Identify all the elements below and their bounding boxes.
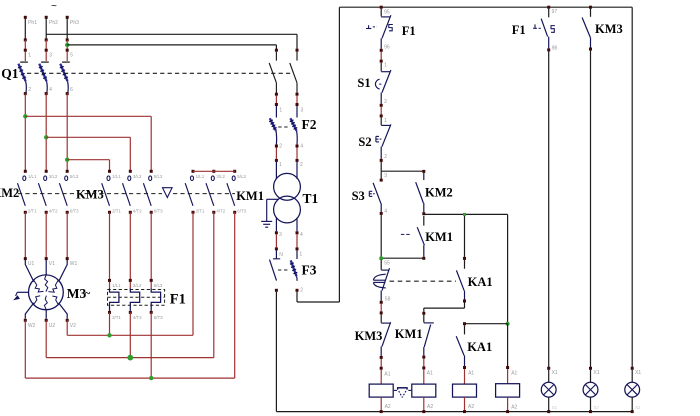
svg-text:S1: S1 <box>357 76 370 90</box>
svg-text:~: ~ <box>85 289 91 300</box>
lamp H2 <box>589 367 592 370</box>
svg-text:3/L2: 3/L2 <box>49 174 58 179</box>
svg-text:KM1: KM1 <box>236 189 264 203</box>
wire node 55 <box>381 257 424 259</box>
KM3 pole 1/L1 <box>108 170 111 173</box>
motor leads <box>25 260 67 282</box>
wires KM1 outputs down <box>192 212 194 335</box>
svg-text:2: 2 <box>28 87 31 93</box>
branch KM1 coil <box>423 308 425 312</box>
svg-text:2: 2 <box>300 162 303 168</box>
svg-text:A2: A2 <box>511 405 517 411</box>
junction F1 2/T1 <box>107 333 111 337</box>
svg-text:A2: A2 <box>385 404 391 410</box>
F1 input 3/L2 <box>129 279 132 282</box>
svg-text:A1: A1 <box>427 371 433 377</box>
wires KM3 outputs to thermal relay F1 <box>109 212 111 280</box>
svg-text:X1: X1 <box>552 370 558 376</box>
motor shaft arrow <box>17 291 28 293</box>
svg-text:6/T3: 6/T3 <box>237 209 246 214</box>
terminal Ph1 <box>24 16 27 19</box>
terminal Ph3 <box>66 16 69 19</box>
svg-text:1: 1 <box>299 252 302 258</box>
svg-text:5/L3: 5/L3 <box>237 174 246 179</box>
stop button S2 <box>380 117 382 125</box>
KM1 pole 1/L1 <box>192 170 195 173</box>
svg-text:KM3: KM3 <box>595 22 623 36</box>
motor terminal U1 <box>24 257 27 260</box>
svg-text:2: 2 <box>279 144 282 150</box>
svg-text:4/T2: 4/T2 <box>216 209 225 214</box>
svg-text:95: 95 <box>384 10 390 16</box>
svg-text:KA1: KA1 <box>467 340 492 354</box>
contact KM3 (lamp) <box>589 6 592 9</box>
wire L2 to KM3 pole 3 <box>46 136 130 138</box>
ground symbol <box>261 220 272 222</box>
svg-text:4/T2: 4/T2 <box>49 209 58 214</box>
node horizontal to KM3-coil branch <box>424 213 508 215</box>
svg-text:F3: F3 <box>302 263 317 278</box>
svg-text:KM1: KM1 <box>425 230 453 244</box>
svg-text:98: 98 <box>552 45 558 51</box>
timer link dashed to KA1 contact <box>390 280 457 282</box>
junction F1 6/T3 <box>149 376 153 380</box>
F3 link dashes <box>278 269 289 271</box>
motor terminal W1 <box>66 257 69 260</box>
motor body circle <box>29 275 64 310</box>
wire L1 to KM3 pole 5 <box>25 115 151 117</box>
contact KA1 (upper, after timer) <box>464 216 466 257</box>
KM2 pole 1/L1 <box>24 170 27 173</box>
control bottom rail <box>276 411 632 413</box>
svg-text:V1: V1 <box>49 261 55 267</box>
wires F1 outputs down to winding ends <box>109 312 111 335</box>
F1 mid dashed line <box>108 296 165 298</box>
delta symbol <box>163 188 173 198</box>
svg-text:A2: A2 <box>427 404 433 410</box>
svg-text:A1: A1 <box>384 371 390 377</box>
svg-text:3: 3 <box>384 173 387 179</box>
loop wire U2 - KM1 3/L2 <box>46 357 214 359</box>
transformer T1 <box>275 148 277 159</box>
svg-text:2: 2 <box>384 99 387 105</box>
svg-text:1: 1 <box>384 62 387 68</box>
wire L3 to KM3 pole 1 <box>67 159 109 161</box>
junction F1 4/T2 <box>127 355 133 361</box>
wire Ph3 to Q1 <box>66 40 68 50</box>
wire Ph1 to Q1 <box>24 40 26 50</box>
F3 neutral pole <box>275 250 277 258</box>
svg-text:N: N <box>279 252 283 258</box>
wire Ph3 to Q1 aux pole (second feeder) <box>67 44 276 46</box>
F1 dashed enclosure <box>108 290 165 306</box>
svg-text:1/L1: 1/L1 <box>112 283 121 288</box>
F1 heater element 2/T1 <box>109 282 111 289</box>
svg-text:97: 97 <box>552 9 558 15</box>
svg-text:Q1: Q1 <box>1 66 19 81</box>
svg-text:U1: U1 <box>28 261 35 267</box>
node on Ph3 (junction) <box>65 43 69 47</box>
F2 pole input 1 <box>275 96 277 104</box>
Q1 aux pole <box>275 49 278 52</box>
svg-text:KA1: KA1 <box>468 275 493 289</box>
coil KM1 <box>412 384 436 397</box>
svg-text:4: 4 <box>49 87 52 93</box>
Q1 mechanical link (dashed) <box>27 72 293 74</box>
svg-text:3: 3 <box>279 232 282 238</box>
KM2 pole 3/L2 <box>45 170 48 173</box>
wires Q1 outputs down to KM2 <box>24 94 26 172</box>
svg-text:2/T1: 2/T1 <box>112 209 121 214</box>
F1 input 5/L3 <box>150 279 153 282</box>
svg-text:Ph3: Ph3 <box>70 20 79 26</box>
svg-text:F1: F1 <box>170 291 186 307</box>
svg-text:KM1: KM1 <box>395 327 423 341</box>
svg-text:KM2: KM2 <box>425 186 453 200</box>
junction L1 <box>23 114 27 118</box>
svg-text:A2: A2 <box>468 404 474 410</box>
coil KM3 <box>496 384 520 397</box>
branch KM3 coil <box>507 214 509 323</box>
T1 secondary circle <box>274 196 301 223</box>
svg-text:F2: F2 <box>302 117 317 132</box>
lamp H3 <box>631 367 634 370</box>
svg-text:X2: X2 <box>635 405 641 410</box>
svg-text:V2: V2 <box>70 323 76 329</box>
KM1 pole 3/L2 <box>212 170 215 173</box>
svg-text:2/T1: 2/T1 <box>196 209 205 214</box>
svg-text:6/T3: 6/T3 <box>70 209 79 214</box>
wire F3 neutral to control bottom rail <box>275 292 277 412</box>
coil KM2 (delta contactor coil) <box>369 384 393 397</box>
timed contact KA1 (star-delta timer) <box>380 260 382 270</box>
F2 link dashes <box>278 126 289 128</box>
svg-text:55: 55 <box>384 260 390 266</box>
svg-text:U2: U2 <box>49 323 56 329</box>
thermal contact F1 95-96 <box>380 6 383 9</box>
svg-text:3/L2: 3/L2 <box>133 174 142 179</box>
contact KM1 (series) <box>423 216 425 226</box>
terminal Ph2 <box>45 16 48 19</box>
svg-text:4: 4 <box>300 144 303 150</box>
loop wire V2 - KM1 1/L1 <box>67 334 193 336</box>
svg-text:4/T2: 4/T2 <box>133 315 142 320</box>
KM3 pole 3/L2 <box>129 170 132 173</box>
svg-text:W2: W2 <box>28 323 36 329</box>
svg-text:4: 4 <box>384 208 387 214</box>
wire to KA1 coil branch <box>465 323 508 325</box>
svg-text:3/L2: 3/L2 <box>133 283 142 288</box>
svg-text:T1: T1 <box>303 191 319 206</box>
T1 primary pins <box>275 162 277 179</box>
Q1 aux pole <box>296 49 299 52</box>
svg-text:3: 3 <box>301 107 304 113</box>
wire Ph2 to Q1 aux pole (top feeder) <box>46 33 297 35</box>
svg-text:6/T3: 6/T3 <box>154 315 163 320</box>
svg-text:~: ~ <box>51 1 57 12</box>
motor terminal W2 <box>24 319 27 322</box>
KM1 pole 5/L3 <box>233 170 236 173</box>
contact KA1 (lower) <box>464 325 466 334</box>
F3 phase pole (protected) <box>296 250 298 259</box>
svg-text:5/L3: 5/L3 <box>154 283 163 288</box>
wire to lamp H1 <box>548 51 550 367</box>
contact KM2 (hold-in) <box>423 173 425 180</box>
svg-text:Ph1: Ph1 <box>28 20 37 26</box>
svg-text:96: 96 <box>384 45 390 51</box>
start button S3 <box>380 171 382 178</box>
KM2 pole 5/L3 <box>66 170 69 173</box>
KM3 pole 5/L3 <box>150 170 153 173</box>
control top rail <box>339 6 632 8</box>
svg-text:F1: F1 <box>402 24 416 38</box>
stop button S1 <box>380 63 382 72</box>
wire to lamp H2 <box>590 51 592 368</box>
svg-text:4: 4 <box>300 232 303 238</box>
svg-text:KM3: KM3 <box>355 329 383 343</box>
svg-text:1/L1: 1/L1 <box>196 174 205 179</box>
wires T1 secondary to F3 <box>275 234 277 247</box>
T1 secondary pins <box>275 218 277 231</box>
svg-text:1: 1 <box>384 118 387 124</box>
svg-text:58: 58 <box>385 297 391 303</box>
svg-text:X1: X1 <box>635 370 641 376</box>
coil KA1 (timer relay) <box>453 384 477 397</box>
svg-text:3: 3 <box>49 53 52 59</box>
svg-text:2: 2 <box>300 288 303 294</box>
mechanical link dashes across contactors <box>18 193 162 195</box>
svg-text:W1: W1 <box>70 261 78 267</box>
F2 pole input 3 <box>296 96 298 104</box>
motor terminal V1 <box>45 257 48 260</box>
wire KA1 output to KM1 coil branch <box>424 307 465 309</box>
svg-text:1: 1 <box>279 107 282 113</box>
T1 earth connection <box>267 198 279 200</box>
wire supply right edge to lamp H3 <box>631 7 633 367</box>
F1 heater element 4/T2 <box>129 282 131 289</box>
svg-text:5: 5 <box>70 53 73 59</box>
svg-text:2/T1: 2/T1 <box>28 209 37 214</box>
junction L3 <box>65 158 69 162</box>
svg-text:4/T2: 4/T2 <box>133 209 142 214</box>
svg-text:A1: A1 <box>468 371 474 377</box>
wires KM2 outputs to motor <box>24 212 26 258</box>
svg-text:6/T3: 6/T3 <box>154 209 163 214</box>
motor terminal V2 <box>66 319 69 322</box>
svg-text:2/T1: 2/T1 <box>112 315 121 320</box>
svg-text:S2: S2 <box>358 135 371 149</box>
F1 input 1/L1 <box>108 279 111 282</box>
star bridge across KM1 inputs <box>193 170 235 172</box>
svg-text:5/L3: 5/L3 <box>154 174 163 179</box>
wire Ph2 to Q1 <box>45 40 47 50</box>
interlock contact KM3 <box>380 314 382 322</box>
wire to node 3 <box>380 162 382 171</box>
svg-text:2: 2 <box>384 154 387 160</box>
svg-text:1: 1 <box>279 162 282 168</box>
junction L2 <box>44 135 48 139</box>
svg-text:KM2: KM2 <box>0 186 19 200</box>
lamp H1 <box>547 367 550 370</box>
F1 heater element 6/T3 <box>150 282 152 289</box>
motor terminal U2 <box>45 319 48 322</box>
signal contact F1 97-98 <box>547 6 550 9</box>
svg-text:F1: F1 <box>512 23 526 37</box>
svg-text:X2: X2 <box>552 405 558 410</box>
wire F3 phase output to control supply rail <box>296 292 298 302</box>
svg-text:3/L2: 3/L2 <box>216 174 225 179</box>
node 3 horizontal to KM2 contact <box>381 170 424 172</box>
svg-text:1/L1: 1/L1 <box>28 174 37 179</box>
delta marker next to coil <box>397 387 408 389</box>
svg-text:Ph2: Ph2 <box>49 20 58 26</box>
wires motor bottom terminals down <box>66 320 68 335</box>
F2 blades <box>270 118 276 131</box>
loop wire W2 - KM1 5/L3 <box>25 377 234 379</box>
svg-text:A1: A1 <box>511 371 517 377</box>
svg-text:5/L3: 5/L3 <box>70 174 79 179</box>
svg-text:M3: M3 <box>67 286 87 301</box>
T1 primary circle <box>274 173 301 200</box>
svg-text:1: 1 <box>28 53 31 59</box>
svg-text:S3: S3 <box>352 189 365 203</box>
svg-text:6: 6 <box>70 87 73 93</box>
svg-text:KM3: KM3 <box>76 188 104 202</box>
motor windings <box>34 280 44 292</box>
svg-text:X2: X2 <box>594 405 600 410</box>
svg-text:1/L1: 1/L1 <box>112 174 121 179</box>
svg-text:X1: X1 <box>593 370 599 376</box>
